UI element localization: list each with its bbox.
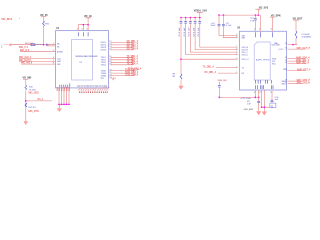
- U1 inner box: [72, 40, 93, 81]
- svg-text:MIC_P 2: MIC_P 2: [19, 47, 29, 49]
- wire TX_DB to U2: [216, 67, 238, 69]
- svg-text:2: 2: [236, 66, 237, 68]
- bottom-left pin labels: [57, 87, 71, 91]
- svg-text:IN-: IN-: [57, 46, 60, 48]
- wire power drop to U2 top pin: [259, 15, 261, 31]
- svg-text:VDD_IO: VDD_IO: [242, 59, 250, 61]
- svg-text:MIC_N 3: MIC_N 3: [20, 50, 30, 52]
- svg-text:MIC_BIAS: MIC_BIAS: [2, 18, 13, 21]
- svg-text:4: 4: [236, 53, 237, 55]
- cap bank top bar: [181, 17, 200, 19]
- power label VDD_SPK top pin: [270, 14, 281, 31]
- wire bottom pin 14 to node: [254, 90, 256, 97]
- bottom bus bar: [59, 104, 69, 108]
- svg-text:*: *: [19, 19, 20, 21]
- ground arrow A below U2: [256, 111, 261, 115]
- svg-text:MIC_CLK 4: MIC_CLK 4: [19, 57, 32, 59]
- top pin names (rotated) inside box: [79, 32, 89, 36]
- wire group right mid: [288, 58, 306, 60]
- svg-text:8: 8: [236, 36, 237, 38]
- wire SD bus: [111, 42, 134, 50]
- wire TDM bus: [111, 71, 136, 76]
- U2 right pin names: [272, 44, 288, 85]
- wire MIC_WS: [19, 60, 56, 62]
- svg-text:20: 20: [285, 62, 287, 64]
- junction dots on bar: [58, 103, 60, 105]
- input port arrow MIC_P: [8, 43, 12, 46]
- svg-text:AMP_IRQ_4: AMP_IRQ_4: [296, 61, 310, 64]
- U2 left pin names: [242, 34, 250, 75]
- wire from pin 15 down: [262, 90, 265, 107]
- U1 right pins group C wires: [101, 69, 139, 77]
- svg-text:0.1uF: 0.1uF: [226, 25, 232, 27]
- wire top bar to U1 top pins: [79, 25, 89, 31]
- IC U1 outer box: [56, 31, 109, 88]
- junction on rail: [25, 100, 27, 102]
- svg-text:MIC_DAT 5: MIC_DAT 5: [19, 59, 32, 62]
- wire SPK_OUT+: [288, 48, 306, 50]
- svg-text:VDD_BST: VDD_BST: [272, 44, 282, 46]
- svg-text:AMP_RST_4: AMP_RST_4: [297, 68, 311, 71]
- svg-text:1: 1: [254, 29, 255, 31]
- svg-text:TDM_DB4_4: TDM_DB4_4: [125, 74, 139, 76]
- svg-text:3: 3: [271, 29, 272, 31]
- svg-text:MIC_WS 6: MIC_WS 6: [21, 63, 33, 65]
- svg-text:1uF: 1uF: [247, 103, 251, 105]
- svg-text:@100MHz: @100MHz: [302, 37, 312, 39]
- U1 bottom-left pins down wires: [59, 88, 69, 104]
- resistor R10 on rail: [25, 85, 27, 90]
- svg-text:SD_DB4_4: SD_DB4_4: [127, 49, 139, 51]
- power symbol VD_05 with series bead FB2: [40, 14, 50, 45]
- svg-text:SDM_MIC: SDM_MIC: [218, 80, 228, 82]
- inductor L2: [295, 31, 297, 38]
- jumper box J1: [270, 103, 276, 107]
- svg-text:19: 19: [285, 69, 287, 71]
- resistor R8 on rail: [180, 74, 182, 79]
- U2 inner die polygon (chamfered top-left): [254, 42, 270, 80]
- power symbol VD_18 above U1: [84, 15, 92, 25]
- wire node bar: [262, 107, 272, 111]
- IC U2 outer box: [240, 31, 287, 90]
- U1 bottom slanted net labels: [78, 87, 111, 92]
- U2 right pin numbers: [285, 43, 287, 84]
- capacitor C8: [211, 15, 238, 35]
- svg-text:TX_DB4_4: TX_DB4_4: [127, 64, 139, 66]
- power symbol right with bead L2: [293, 17, 303, 31]
- capacitor C9: [222, 15, 238, 38]
- capacitor C4: [189, 18, 192, 37]
- U1 bottom pin dark marks: [79, 92, 108, 93]
- svg-text:SPK_SNS_N: SPK_SNS_N: [297, 82, 311, 84]
- capacitor C2: [179, 18, 182, 37]
- U2 bottom pin numbers: [254, 92, 273, 94]
- U2 die bottom stubs: [256, 80, 272, 84]
- svg-text:IRQ: IRQ: [272, 63, 276, 65]
- U1 right pins group B wires: [101, 56, 139, 67]
- junction dots on top bar: [83, 24, 85, 26]
- staircase wires from caps to U2 left pins: [200, 28, 238, 47]
- svg-text:TX_DB1_4: TX_DB1_4: [203, 66, 215, 68]
- svg-text:MIC_VDD: MIC_VDD: [29, 93, 40, 95]
- svg-text:AGND: AGND: [57, 51, 64, 54]
- wires right bottom pair: [288, 80, 303, 82]
- svg-text:RX_DB1_4: RX_DB1_4: [205, 72, 217, 74]
- capacitor C3: [184, 18, 187, 37]
- power symbol VD_MB bottom-left rail: [23, 77, 32, 86]
- ground arrow mid: [178, 86, 183, 90]
- cap C1 mark: [47, 44, 48, 46]
- branch wire right: [26, 100, 52, 102]
- svg-text:1: 1: [236, 72, 237, 74]
- capacitor C10 to U2 top pin: [250, 15, 257, 31]
- svg-text:SDO4: SDO4: [101, 50, 108, 52]
- capacitor C5: [193, 18, 196, 37]
- svg-text:23: 23: [285, 48, 287, 50]
- svg-text:24: 24: [285, 43, 287, 45]
- wire TX bus: [111, 57, 134, 65]
- ground arrow: [57, 108, 62, 112]
- svg-text:GND_AMP: GND_AMP: [244, 108, 255, 111]
- svg-text:2: 2: [259, 29, 260, 31]
- wire MIC_P to U1 pin 1: [12, 44, 56, 46]
- capacitor C6: [198, 18, 201, 37]
- bead L1 on MIC_P wire: [37, 44, 42, 46]
- C8 C9 power bar: [219, 14, 260, 16]
- rail from C2 down with junction: [180, 28, 182, 74]
- U2 left pin numbers: [236, 34, 237, 74]
- svg-text:17: 17: [285, 82, 287, 84]
- wire RX_DB to U2: [218, 72, 238, 74]
- capacitor C11 below U2: [247, 90, 260, 111]
- svg-text:CLK: CLK: [57, 58, 62, 60]
- wire MIC_N to U1 pin 2: [20, 51, 56, 53]
- svg-text:15: 15: [259, 92, 261, 94]
- svg-text:SPK_OUT_P: SPK_OUT_P: [297, 48, 311, 50]
- U2 bottom pin name dashes: [256, 85, 273, 89]
- wire pin16 down with cap C15: [271, 90, 273, 107]
- svg-text:40: 40: [106, 85, 108, 87]
- rail wire continues: [25, 90, 27, 121]
- svg-text:VA2: VA2: [242, 37, 245, 40]
- power label VP over U2: [255, 6, 268, 15]
- junction node MIC_P / VD_05: [43, 44, 45, 46]
- junction SDM bottom: [218, 97, 220, 99]
- svg-text:OUT+: OUT+: [279, 49, 285, 51]
- resistor R11 on rail: [25, 103, 27, 107]
- svg-text:MICROPHONE CONTROLLER: MICROPHONE CONTROLLER: [76, 56, 98, 58]
- svg-text:1uF: 1uF: [275, 99, 279, 101]
- wire MIC_DATA: [21, 63, 56, 65]
- svg-text:R11 NC: R11 NC: [29, 107, 37, 109]
- short pin wire near bottom right of U1: [111, 77, 117, 79]
- svg-text:1K DNI: 1K DNI: [29, 90, 36, 92]
- ground arrow B below U2: [262, 112, 267, 116]
- wire bead to U2 right pin: [288, 39, 297, 45]
- wire right lower: [288, 70, 306, 72]
- svg-text:3: 3: [236, 58, 237, 60]
- svg-text:AMPLIFIER: AMPLIFIER: [256, 58, 270, 61]
- svg-text:VDD_D: VDD_D: [242, 54, 249, 56]
- rail pin wire: [181, 58, 238, 60]
- wire MIC_CLK: [19, 58, 56, 60]
- svg-text:NC_1: NC_1: [38, 99, 45, 101]
- svg-text:10uF: 10uF: [211, 25, 217, 27]
- U1 right pins group A wires: [101, 41, 139, 52]
- svg-text:+C12 10uF: +C12 10uF: [240, 98, 252, 100]
- rail to ground: [180, 80, 182, 86]
- SDM wire with series cap C7: [218, 82, 220, 98]
- power label VDDA_1V8 over cap bank: [194, 10, 208, 18]
- U1 bottom pin numbers comb: [77, 85, 108, 87]
- bottom horizontal wire: [219, 96, 258, 98]
- svg-text:MIC_RTN: MIC_RTN: [29, 111, 40, 113]
- wire IN- stub: [47, 45, 56, 47]
- junction dots cap bank: [180, 17, 182, 19]
- port arrow down bottom-left: [24, 121, 29, 125]
- svg-text:DM5: DM5: [69, 87, 71, 91]
- svg-text:TXD4: TXD4: [101, 65, 107, 67]
